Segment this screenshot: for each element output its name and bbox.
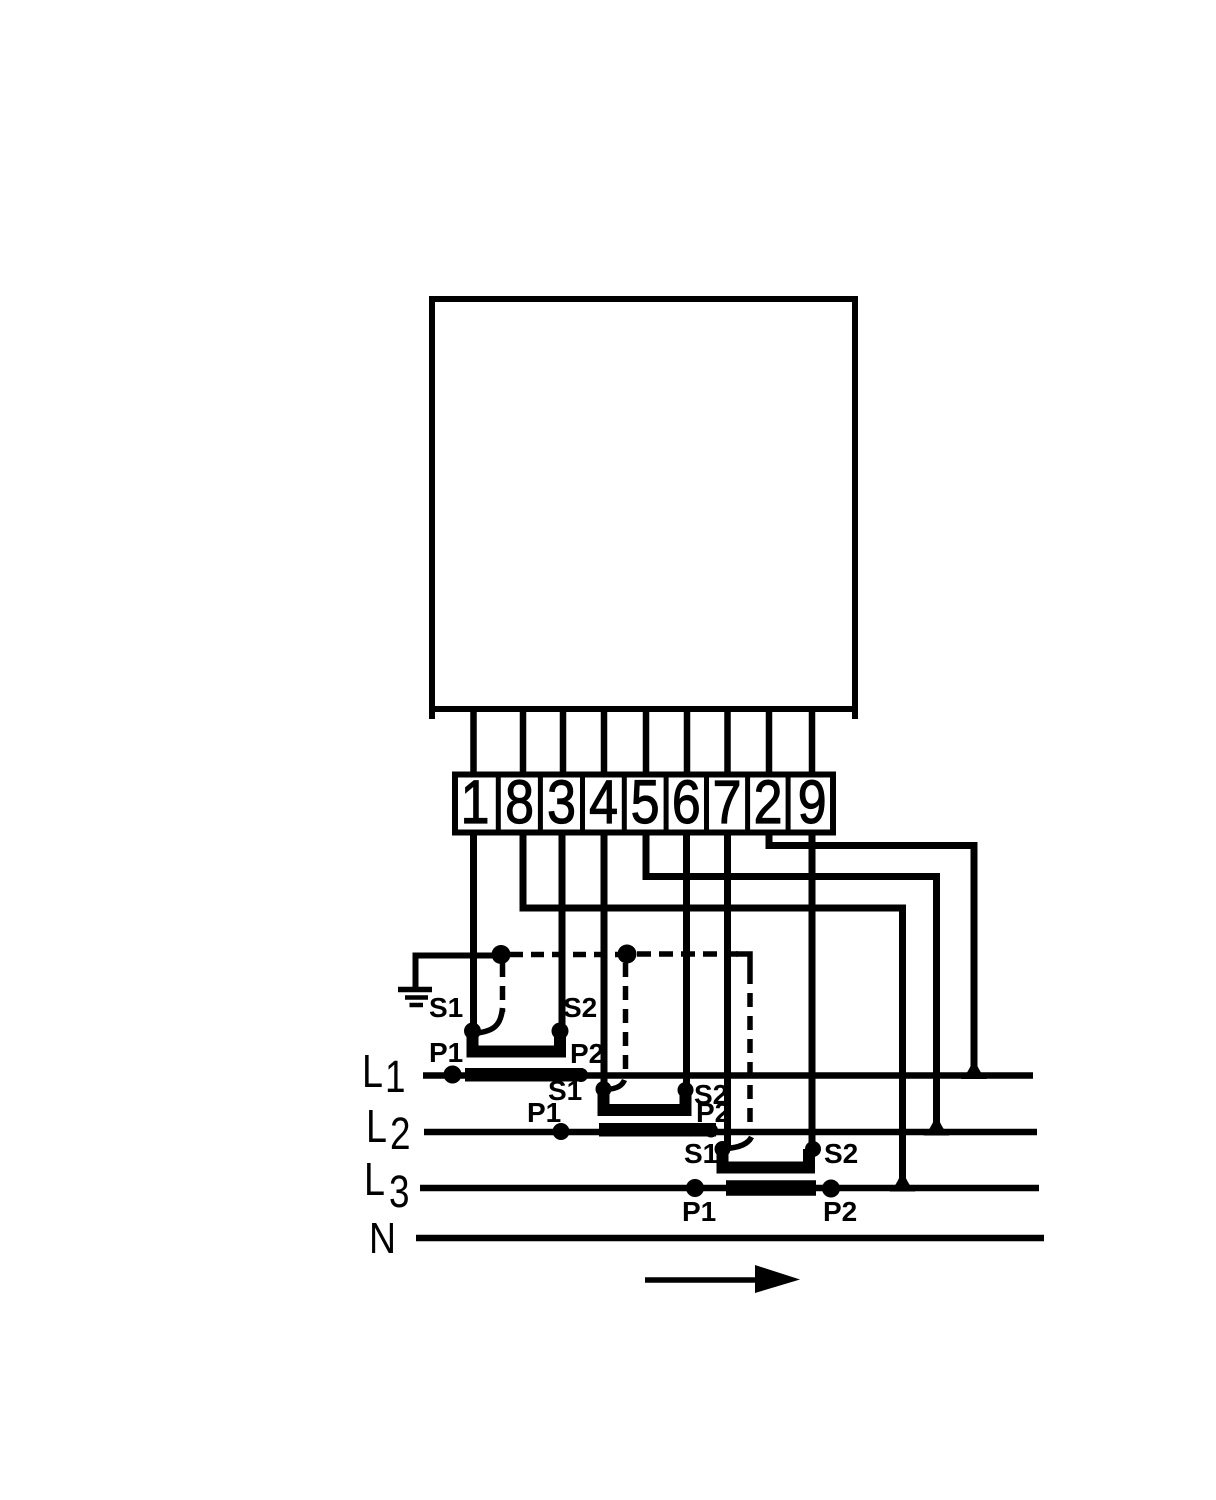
wire terminal8 to box <box>520 710 527 776</box>
neutral line N <box>416 1235 1044 1242</box>
terminal divider 7|2 <box>745 774 750 833</box>
dashed drop to CT3 S1 <box>747 970 753 1132</box>
CT1 secondary winding bar <box>473 1031 561 1052</box>
node B junction dot (earth bus / CT2) <box>618 945 637 964</box>
svg-text:7: 7 <box>713 768 742 836</box>
svg-text:1: 1 <box>385 1052 406 1102</box>
dashed drop to CT1 S1 <box>500 963 506 1012</box>
svg-text:N: N <box>369 1213 396 1263</box>
wire terminal1 down to CT1 S1 <box>470 831 477 1030</box>
svg-text:8: 8 <box>505 768 534 836</box>
CT3 P1 junction dot <box>686 1179 704 1197</box>
svg-text:P1: P1 <box>682 1196 716 1227</box>
terminal strip outline <box>455 775 833 833</box>
svg-text:S1: S1 <box>684 1138 718 1169</box>
CT2 S2 terminal dot <box>678 1082 694 1098</box>
wire terminal1 to box <box>470 710 477 776</box>
current transformer CT3 on L3 <box>686 1141 840 1198</box>
svg-text:L: L <box>364 1153 385 1204</box>
hook link to CT1 S1 <box>477 1008 503 1033</box>
CT1 S1 terminal dot <box>464 1023 481 1040</box>
terminal divider 3|4 <box>580 774 585 833</box>
wire terminal3 to box <box>560 710 567 776</box>
ground symbol <box>398 956 473 1006</box>
node A junction dot (earth bus / CT1) <box>492 945 511 964</box>
terminal divider 2|9 <box>786 774 791 833</box>
phase line L1 <box>423 1072 1033 1079</box>
wire terminal6 down to CT2 S2 <box>683 831 690 1089</box>
svg-text:P2: P2 <box>696 1097 730 1128</box>
phase line L3 <box>420 1185 1039 1192</box>
CT2 secondary winding bar <box>604 1089 686 1110</box>
dashed drop to CT2 S1 <box>623 963 629 1072</box>
CT1 S2 terminal dot <box>552 1023 569 1040</box>
earth bus solid segment to node A <box>473 953 500 959</box>
junction blob L1 / terminal2 wire <box>961 1058 987 1079</box>
svg-text:6: 6 <box>672 768 701 836</box>
svg-text:4: 4 <box>589 768 618 836</box>
wire terminal2 voltage tap to L1 <box>769 831 974 1072</box>
wire terminal8 voltage tap to L3 <box>523 831 903 1185</box>
wire terminal7 down to CT3 S1 <box>724 831 731 1147</box>
svg-text:5: 5 <box>631 768 660 836</box>
wire terminal4 down to CT2 S1 <box>601 831 608 1088</box>
svg-text:L: L <box>366 1100 387 1151</box>
wire terminal4 to box <box>601 710 608 776</box>
wire terminal9 down to CT3 S2 <box>809 831 816 1147</box>
CT2 P1 junction dot <box>553 1123 570 1140</box>
wire terminal5 to box <box>643 710 650 776</box>
box corner tail right <box>852 709 858 719</box>
meter box (kWh meter outline) <box>432 299 855 709</box>
svg-text:P2: P2 <box>570 1038 604 1069</box>
energy flow arrow <box>645 1265 800 1293</box>
CT3 S1 terminal dot <box>715 1141 731 1157</box>
svg-text:P1: P1 <box>527 1097 561 1128</box>
current transformer CT2 on L2 <box>553 1081 719 1140</box>
box corner tail left <box>429 709 435 719</box>
svg-text:2: 2 <box>390 1109 411 1159</box>
wire terminal7 to box <box>724 710 731 776</box>
svg-text:9: 9 <box>798 768 827 836</box>
svg-text:S1: S1 <box>429 992 463 1023</box>
CT3 primary bar <box>726 1180 816 1196</box>
svg-text:3: 3 <box>547 768 576 836</box>
junction blob L2 / terminal5 wire <box>924 1114 950 1136</box>
svg-text:L: L <box>362 1045 383 1096</box>
terminal divider 5|6 <box>664 774 669 833</box>
svg-text:P2: P2 <box>823 1196 857 1227</box>
CT2 S1 terminal dot <box>596 1081 612 1097</box>
svg-text:1: 1 <box>461 768 490 836</box>
hook link to CT3 S1 <box>726 1137 752 1149</box>
CT3 S2 terminal dot <box>805 1141 821 1157</box>
terminal divider 8|3 <box>538 774 543 833</box>
earth bus dashed segment node A to node B <box>510 952 620 958</box>
CT1 primary bar <box>465 1068 583 1082</box>
svg-text:S2: S2 <box>563 992 597 1023</box>
svg-text:2: 2 <box>754 768 783 836</box>
wire terminal2 to box <box>766 710 773 776</box>
current transformer CT1 on L1 <box>444 1023 589 1084</box>
svg-text:S2: S2 <box>824 1138 858 1169</box>
CT1 P2 junction dot <box>574 1068 588 1082</box>
CT3 secondary winding bar <box>723 1149 810 1168</box>
terminal divider 6|7 <box>704 774 709 833</box>
wire terminal3 down to CT1 S2 <box>559 831 566 1030</box>
earth bus corner to CT3 <box>736 954 750 970</box>
earth bus dashed segment node B to corner <box>637 951 738 957</box>
CT1 P1 junction dot <box>444 1066 462 1084</box>
CT2 primary bar <box>599 1123 716 1137</box>
hook link to CT2 S1 <box>607 1080 625 1090</box>
terminal divider 4|5 <box>622 774 627 833</box>
CT3 P2 junction dot <box>822 1180 840 1198</box>
junction blob L3 / terminal8 wire <box>890 1170 916 1192</box>
CT2 P2 junction dot <box>704 1124 718 1138</box>
wire terminal5 voltage tap to L2 <box>646 831 937 1129</box>
wire terminal6 to box <box>684 710 691 776</box>
wire terminal9 to box <box>809 710 816 776</box>
svg-text:P1: P1 <box>429 1037 463 1068</box>
phase line L2 <box>424 1129 1037 1136</box>
svg-text:3: 3 <box>389 1167 410 1217</box>
terminal divider 1|8 <box>496 774 501 833</box>
